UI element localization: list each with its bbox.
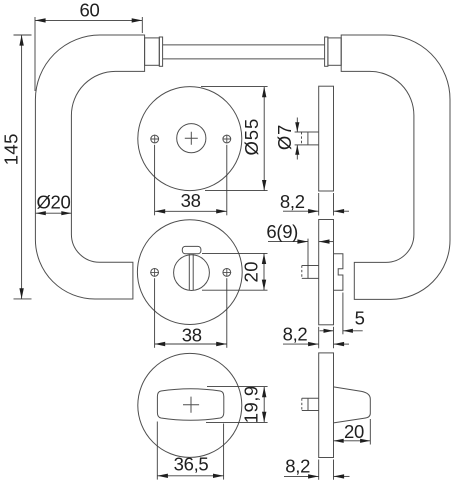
svg-text:Ø55: Ø55 xyxy=(241,118,262,156)
dim 38 r1 arrow right xyxy=(216,209,227,213)
dim 19.9 arrow bottom xyxy=(262,412,266,423)
rosette 2 square spindle pin xyxy=(302,266,319,279)
dim O55 line xyxy=(263,87,265,191)
rosette 1 side view plate xyxy=(319,86,334,191)
rosette 1 outer circle xyxy=(138,87,242,191)
dim 36.5 arrow right xyxy=(213,474,224,478)
dim 8.2 r1 extension left xyxy=(318,193,320,216)
dim 20 r3 line xyxy=(334,440,371,442)
rosette 1 centre cross xyxy=(185,132,198,145)
dim 8.2 r2 shaft right xyxy=(334,343,350,345)
dim 8.2 r3 extension right xyxy=(333,460,335,480)
rosette 3 turn grip side xyxy=(334,387,371,423)
dim 5 extension xyxy=(342,293,344,335)
dim 20 r2 arrow bottom xyxy=(262,280,266,291)
dim 8.2 r1 arrow left xyxy=(308,209,319,213)
left handle neck flange ring xyxy=(159,37,162,66)
rosette 2 side view plate xyxy=(319,220,334,325)
dim 20 r3 arrow left xyxy=(334,439,344,443)
dim 36.5 line xyxy=(157,475,223,477)
dim 6(9) shaft left xyxy=(268,241,308,243)
dim 38 r2 arrow right xyxy=(216,342,227,346)
dim 38 r1 extension right xyxy=(226,145,228,216)
rosette 2 thumbturn base side xyxy=(334,254,343,290)
rosette 3 side view plate xyxy=(319,353,334,458)
dim 6(9) arrow left xyxy=(297,239,308,243)
rosette 3 turn grip front xyxy=(157,389,223,421)
rosette 2 thumbturn knob cap xyxy=(182,246,201,253)
dim 8.2 r3 arrow left xyxy=(308,474,319,478)
dim 5 shaft right xyxy=(343,330,363,332)
dim 145 arrow bottom xyxy=(19,288,23,299)
dim 8.2 r2 arrow left xyxy=(308,342,319,346)
dim 20 r3 arrow right xyxy=(360,439,370,443)
dim 5 arrow right xyxy=(343,329,353,333)
dim 38 r2 extension right xyxy=(226,278,228,348)
dim O55 arrow top xyxy=(262,87,266,98)
dim 20 r2 extension top xyxy=(202,252,268,254)
dim 8.2 r1 arrow right xyxy=(334,209,345,213)
dim 8.2 r1 shaft left xyxy=(283,210,319,212)
svg-text:8,2: 8,2 xyxy=(283,324,308,345)
dim 20 r2 line xyxy=(263,253,265,290)
svg-text:20: 20 xyxy=(240,261,261,282)
dim O55 extension top xyxy=(201,86,268,88)
dim 19.9 line xyxy=(263,387,265,423)
dim 36.5 extension right xyxy=(223,424,225,480)
dim 36.5 arrow left xyxy=(157,474,168,478)
rosette 2 thumbturn bar xyxy=(189,254,193,290)
svg-text:Ø20: Ø20 xyxy=(36,191,70,212)
rosette 3 centre cross xyxy=(183,397,199,413)
right handle neck collar xyxy=(328,38,341,65)
dim O7 arrow bottom xyxy=(295,145,299,155)
svg-text:19,9: 19,9 xyxy=(240,385,261,423)
dim O20 arrow right xyxy=(61,211,71,215)
rosette 3 outer circle xyxy=(138,353,242,457)
svg-text:20: 20 xyxy=(344,421,364,442)
rosette 3 pin hidden edge xyxy=(301,398,303,410)
dim 8.2 r2 extension left xyxy=(318,327,320,349)
svg-text:Ø7: Ø7 xyxy=(274,124,295,150)
dim 8.2 r3 extension left xyxy=(318,460,320,480)
rosette 1 centre bore circle xyxy=(177,124,206,153)
dim 8.2 r2 arrow right xyxy=(334,342,345,346)
svg-text:38: 38 xyxy=(181,190,201,211)
connecting spindle upper line xyxy=(163,44,325,46)
svg-text:6(9): 6(9) xyxy=(266,221,298,242)
rosette 2 outer circle xyxy=(137,220,242,325)
dim O7 shaft top xyxy=(296,118,298,133)
dim 5 arrow left xyxy=(324,329,334,333)
dim O7 arrow top xyxy=(295,122,299,132)
dim 8.2 r1 extension right xyxy=(333,193,335,216)
dim 38 r2 arrow left xyxy=(155,342,166,346)
rosette 1 support pin xyxy=(302,132,319,145)
dim O20 arrow left xyxy=(36,211,46,215)
dim 36.5 extension left xyxy=(156,422,158,480)
dim 145 arrow top xyxy=(19,35,23,46)
dim 6(9) extension xyxy=(307,239,309,279)
rosette 3 support pin xyxy=(302,398,319,410)
dim 8.2 r1 shaft right xyxy=(334,210,350,212)
dim O55 extension bottom xyxy=(205,190,268,192)
left handle neck collar xyxy=(145,38,160,65)
dim 19.9 extension top xyxy=(207,386,268,388)
svg-text:5: 5 xyxy=(355,307,365,328)
dim 19.9 arrow top xyxy=(262,387,266,398)
dim 20 r3 extension xyxy=(369,419,371,445)
rosette 2 thumbturn circle xyxy=(174,255,210,291)
dim O7 extension bottom xyxy=(295,144,302,146)
svg-text:38: 38 xyxy=(182,325,202,346)
rosette 2 left screw xyxy=(150,268,159,277)
dim 8.2 r2 extension right xyxy=(333,327,335,349)
dim O7 shaft bottom xyxy=(296,145,298,160)
dim 6(9) arrow right xyxy=(319,239,330,243)
dim 20 r2 extension bottom xyxy=(202,289,268,291)
dim 38 r1 arrow left xyxy=(155,209,166,213)
dim 6(9) shaft right xyxy=(319,241,333,243)
rosette 1 right screw xyxy=(223,135,232,144)
dim 8.2 r3 shaft right xyxy=(334,475,350,477)
dim 38 r2 extension left xyxy=(154,278,156,348)
dim 5 shaft left xyxy=(320,330,334,332)
dim O20 line xyxy=(36,212,72,214)
svg-text:145: 145 xyxy=(1,133,22,165)
dim 145 extension line bottom xyxy=(14,298,32,300)
dim 8.2 r2 shaft left xyxy=(283,343,319,345)
dim 20 r2 arrow top xyxy=(262,253,266,264)
door lever handle, right side view xyxy=(341,35,450,299)
rosette 2 pin hidden edge xyxy=(301,266,303,279)
door lever handle, left side view xyxy=(35,35,144,299)
dim O7 extension top xyxy=(295,131,302,133)
rosette 1 left screw xyxy=(150,135,159,144)
dim 145 line xyxy=(21,35,23,299)
dim 60 extension line left xyxy=(34,17,36,91)
dim 8.2 r3 shaft left xyxy=(284,475,319,477)
svg-text:8,2: 8,2 xyxy=(285,456,310,477)
svg-text:8,2: 8,2 xyxy=(280,191,305,212)
dim 145 extension line top xyxy=(14,34,32,36)
dim 60 extension line right xyxy=(141,17,143,33)
rosette 2 right screw xyxy=(223,268,232,277)
dim 60 arrow left xyxy=(35,18,46,22)
dim 19.9 extension bottom xyxy=(206,421,268,423)
dim 38 r1 extension left xyxy=(154,145,156,216)
dim O55 arrow bottom xyxy=(262,180,266,191)
dim 38 r1 line xyxy=(155,210,227,212)
rosette 1 support pin hidden edge xyxy=(301,132,303,145)
connecting spindle lower line xyxy=(163,58,325,60)
dim 60 line xyxy=(35,19,142,21)
dim 8.2 r3 arrow right xyxy=(334,474,345,478)
dim 60 arrow right xyxy=(132,18,143,22)
svg-text:36,5: 36,5 xyxy=(174,454,209,475)
dim 38 r2 line xyxy=(155,343,227,345)
svg-text:60: 60 xyxy=(80,0,100,21)
right handle neck flange ring xyxy=(325,37,328,66)
